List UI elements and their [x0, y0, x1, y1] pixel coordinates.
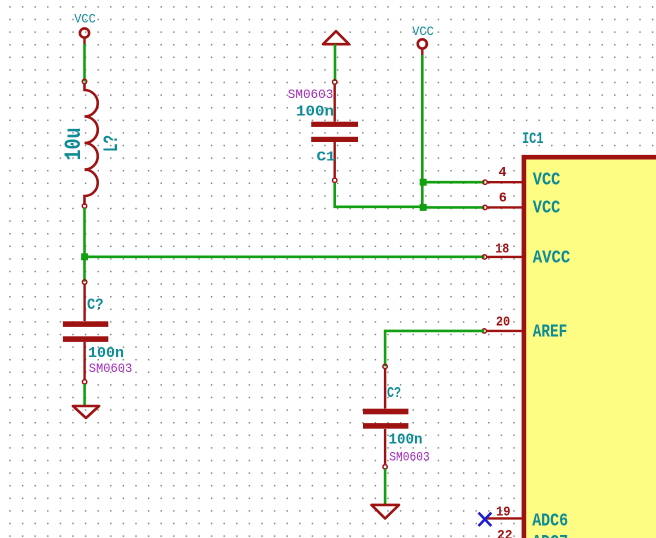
pin 18 [482, 255, 524, 259]
power symbol +V arrow (middle top) [323, 31, 349, 44]
wire AVCC (junction to pin 18) [85, 255, 485, 258]
junction A [81, 253, 88, 260]
wire L1 to junction [83, 208, 86, 257]
no-connect X (pin 19) [479, 513, 492, 526]
svg-text:20: 20 [496, 315, 510, 330]
svg-text:AREF: AREF [533, 322, 568, 343]
svg-text:100n: 100n [296, 104, 334, 121]
wire AREF to C3 [385, 331, 484, 367]
wire VCC to L1 [83, 44, 86, 82]
svg-text:IC1: IC1 [522, 130, 544, 148]
capacitor C1 [311, 80, 358, 183]
svg-text:ADC6: ADC6 [532, 511, 568, 532]
pin 6 [483, 205, 524, 209]
svg-text:VCC: VCC [533, 169, 561, 190]
svg-text:10u: 10u [61, 128, 87, 161]
svg-text:100n: 100n [389, 432, 423, 449]
svg-text:VCC: VCC [412, 24, 434, 39]
wire C3 to ground [384, 469, 387, 505]
svg-text:18: 18 [495, 243, 509, 258]
junction C [420, 204, 427, 211]
svg-text:22: 22 [497, 529, 513, 538]
wire C1 to pin6 net [335, 183, 424, 207]
pin 20 [482, 329, 524, 333]
svg-text:C1: C1 [317, 150, 336, 166]
ground (left) [73, 406, 99, 418]
svg-text:C?: C? [387, 385, 401, 402]
wire C2 to ground [83, 384, 86, 406]
power symbol VCC (left) [80, 28, 89, 44]
svg-text:4: 4 [499, 166, 507, 181]
svg-text:SM0603: SM0603 [288, 88, 334, 102]
svg-text:SM0603: SM0603 [89, 362, 133, 376]
wire VCC down [421, 55, 424, 207]
wire to pin 6 [423, 206, 484, 209]
svg-text:VCC: VCC [74, 12, 96, 27]
svg-text:19: 19 [496, 506, 511, 521]
svg-text:ADC7: ADC7 [532, 532, 568, 538]
svg-text:C?: C? [87, 296, 104, 314]
wire arrow to C1 [334, 44, 337, 81]
svg-text:100n: 100n [88, 345, 124, 362]
capacitor C? (bottom) [363, 364, 408, 469]
pin 4 [483, 180, 524, 184]
pin 19 [486, 517, 524, 519]
wire junction to C2 [83, 257, 86, 282]
wire to pin 4 [423, 181, 484, 184]
svg-text:AVCC: AVCC [533, 248, 571, 269]
capacitor C? (left) [63, 280, 108, 384]
svg-text:6: 6 [499, 191, 507, 206]
svg-text:L?: L? [101, 135, 124, 152]
IC1 body [524, 157, 656, 538]
svg-text:VCC: VCC [533, 197, 561, 218]
inductor L? [82, 79, 97, 208]
svg-text:SM0603: SM0603 [389, 450, 430, 464]
ground (bottom) [372, 505, 400, 519]
power symbol VCC (right) [418, 39, 427, 55]
junction B [420, 179, 427, 186]
